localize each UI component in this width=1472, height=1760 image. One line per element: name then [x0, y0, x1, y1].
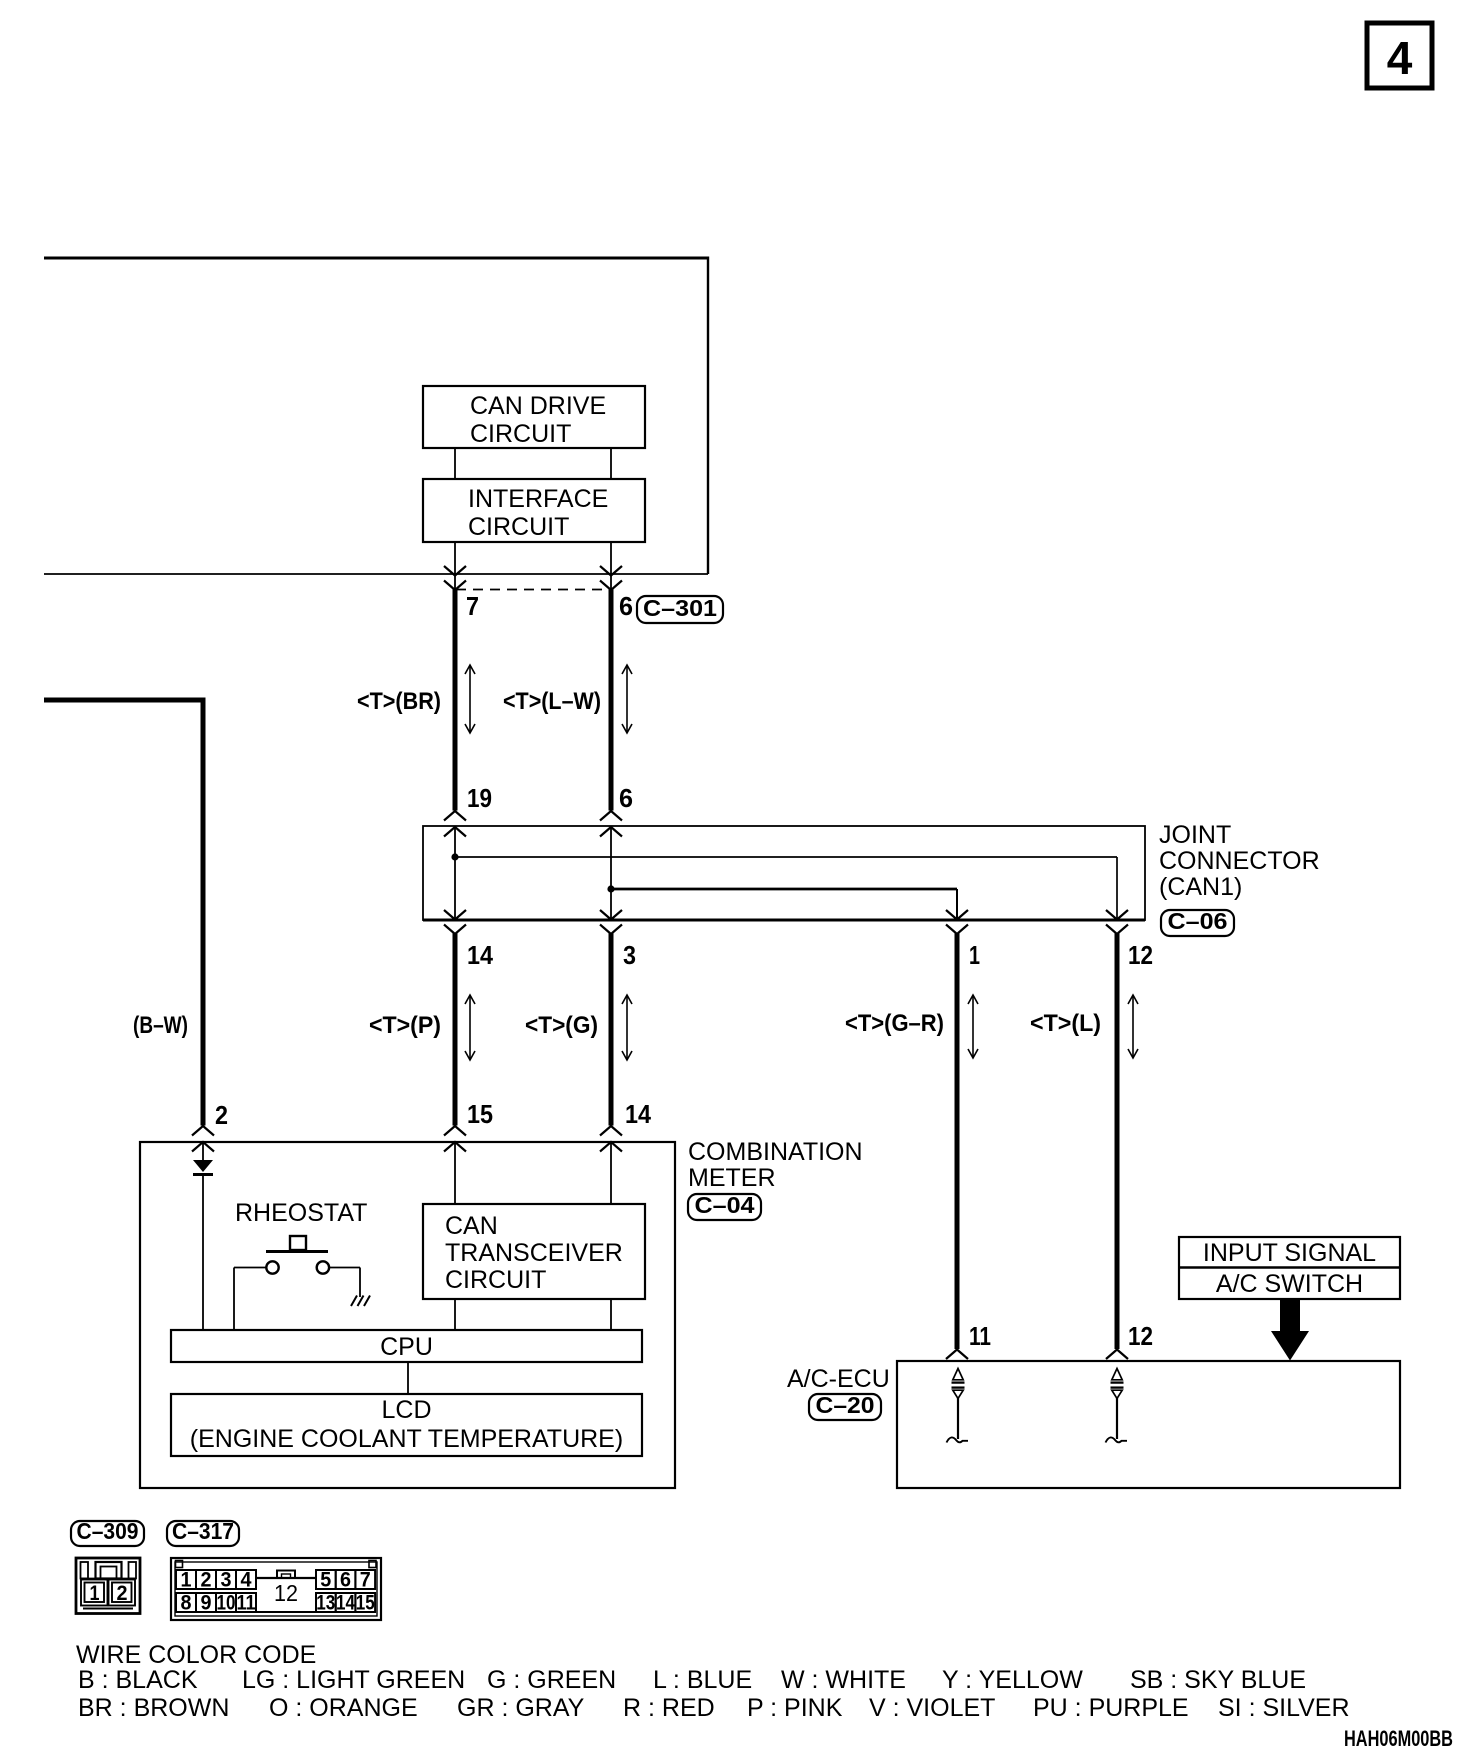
svg-text:1: 1: [181, 1569, 192, 1592]
connector face drawing C-317: [171, 1558, 381, 1620]
svg-text:8: 8: [181, 1592, 192, 1615]
connector symbol C-20 entry pin 11: [946, 1350, 968, 1360]
connector label C-301: [637, 595, 723, 623]
svg-text:PU : PURPLE: PU : PURPLE: [1033, 1694, 1189, 1722]
svg-text:R : RED: R : RED: [623, 1694, 715, 1722]
svg-text:19: 19: [467, 783, 492, 813]
svg-text:<T>(G–R): <T>(G–R): [845, 1010, 944, 1037]
svg-text:G : GREEN: G : GREEN: [487, 1666, 616, 1694]
svg-text:13: 13: [316, 1592, 335, 1615]
connector label C-20: [809, 1392, 881, 1420]
svg-text:INPUT SIGNAL: INPUT SIGNAL: [1203, 1239, 1376, 1267]
wire CPU to LCD: [407, 1362, 409, 1394]
input signal arrow into A/C-ECU: [1271, 1299, 1309, 1361]
connector symbol C-20 entry pin 12: [1106, 1350, 1128, 1360]
joint connector internal wire pin19-pin14: [454, 827, 456, 920]
svg-text:7: 7: [466, 591, 479, 621]
svg-text:12: 12: [274, 1580, 298, 1606]
connector label C-317: [167, 1518, 239, 1546]
wire rheostat left contact to CPU: [234, 1268, 266, 1331]
wire CAN DRIVE to INTERFACE (CAN-H side): [610, 448, 612, 479]
svg-text:BR : BROWN: BR : BROWN: [78, 1694, 229, 1722]
svg-text:Y : YELLOW: Y : YELLOW: [942, 1666, 1083, 1694]
combination meter C-04 box: [140, 1142, 675, 1488]
svg-text:C–06: C–06: [1168, 908, 1228, 934]
svg-text:CIRCUIT: CIRCUIT: [445, 1266, 546, 1294]
wire CAN DRIVE to INTERFACE (CAN-L side): [454, 448, 456, 479]
connector C-301 mating face (dashed): [456, 589, 612, 591]
svg-text:15: 15: [356, 1592, 375, 1615]
svg-text:A/C-ECU: A/C-ECU: [787, 1365, 890, 1393]
svg-text:W : WHITE: W : WHITE: [781, 1666, 906, 1694]
svg-text:12: 12: [1128, 940, 1153, 970]
svg-text:2: 2: [215, 1100, 228, 1130]
A/C-ECU C-20 box: [897, 1361, 1400, 1488]
svg-text:2: 2: [117, 1582, 128, 1605]
wire <T>(P) C-06 pin 14 to meter pin 15: [453, 933, 458, 1126]
wire CAN transceiver to CPU (left): [454, 1299, 456, 1330]
connector symbol C-04 entry pin 14: [600, 1126, 622, 1152]
diode D1 (illumination): [193, 1160, 213, 1175]
A/C-ECU internal contact symbol at pin 11: [947, 1369, 969, 1443]
joint connector internal wire pin6-pin3: [610, 827, 612, 920]
wire (B-W) from page edge to combination meter pin 2: [44, 698, 206, 1126]
block INPUT SIGNAL / A/C SWITCH: [1179, 1237, 1400, 1299]
twisted-pair arrow (P wire): [465, 995, 475, 1060]
svg-text:9: 9: [201, 1592, 212, 1615]
svg-text:TRANSCEIVER: TRANSCEIVER: [445, 1239, 623, 1267]
connector label C-309: [71, 1518, 144, 1546]
connector label C-06: [1161, 908, 1234, 936]
svg-text:LCD: LCD: [381, 1396, 431, 1424]
wire <T>(BR) pin 7 to C-06 pin 19: [453, 589, 458, 811]
svg-text:(B–W): (B–W): [133, 1012, 188, 1039]
connector face drawing C-309: [76, 1558, 140, 1614]
svg-text:GR : GRAY: GR : GRAY: [457, 1694, 585, 1722]
svg-text:LG : LIGHT GREEN: LG : LIGHT GREEN: [242, 1666, 465, 1694]
svg-text:(ENGINE COOLANT TEMPERATURE): (ENGINE COOLANT TEMPERATURE): [190, 1425, 623, 1453]
connector label C-04: [688, 1192, 761, 1220]
A/C-ECU internal contact symbol at pin 12: [1106, 1369, 1128, 1443]
svg-text:6: 6: [619, 591, 633, 621]
svg-text:1: 1: [969, 940, 980, 970]
junction node B (CAN-H bus): [607, 885, 614, 892]
svg-text:2: 2: [201, 1569, 212, 1592]
svg-text:11: 11: [969, 1321, 991, 1351]
connector symbol C-06 exit pin 3: [600, 910, 622, 934]
svg-text:HAH06M00BB: HAH06M00BB: [1344, 1726, 1453, 1751]
twisted-pair arrow (G wire): [622, 995, 632, 1060]
svg-text:C–309: C–309: [77, 1518, 139, 1544]
twisted-pair arrow (G-R wire): [968, 995, 978, 1058]
wire INTERFACE to connector C-301 pin 6: [610, 542, 612, 590]
svg-text:12: 12: [1128, 1321, 1153, 1351]
svg-text:C–04: C–04: [695, 1192, 755, 1218]
svg-text:P : PINK: P : PINK: [747, 1694, 843, 1722]
svg-text:INTERFACE: INTERFACE: [468, 485, 608, 513]
wire <T>(G-R) C-06 pin 1 to A/C-ECU pin 11: [955, 933, 960, 1349]
block CAN TRANSCEIVER CIRCUIT: [423, 1204, 645, 1299]
wire <T>(L) C-06 pin 12 to A/C-ECU pin 12: [1115, 933, 1120, 1349]
joint connector internal bus wire to pin 1: [611, 889, 957, 920]
svg-text:WIRE COLOR CODE: WIRE COLOR CODE: [76, 1641, 316, 1669]
svg-text:JOINT: JOINT: [1159, 821, 1231, 849]
svg-text:1: 1: [90, 1582, 100, 1605]
svg-text:RHEOSTAT: RHEOSTAT: [235, 1199, 367, 1227]
svg-text:C–301: C–301: [643, 595, 717, 621]
svg-text:3: 3: [221, 1569, 232, 1592]
connector symbol at module edge pin 6: [600, 566, 622, 590]
svg-text:<T>(L): <T>(L): [1030, 1010, 1101, 1037]
svg-text:14: 14: [625, 1099, 651, 1129]
svg-text:14: 14: [336, 1592, 355, 1615]
wire color code line 1: [78, 1666, 1306, 1694]
wire meter pin 15 to CAN transceiver: [454, 1142, 456, 1204]
svg-text:CIRCUIT: CIRCUIT: [470, 420, 571, 448]
svg-text:<T>(L–W): <T>(L–W): [503, 688, 601, 715]
connector symbol at module edge pin 7: [444, 566, 466, 590]
svg-text:SI : SILVER: SI : SILVER: [1218, 1694, 1350, 1722]
twisted-pair arrow (L-W wire): [622, 665, 632, 733]
svg-text:14: 14: [467, 940, 493, 970]
svg-text:SB : SKY BLUE: SB : SKY BLUE: [1130, 1666, 1306, 1694]
page number box 4: [1367, 23, 1432, 88]
block CPU: [171, 1330, 642, 1362]
chassis ground (rheostat): [351, 1296, 370, 1307]
svg-text:4: 4: [1387, 32, 1413, 84]
connector symbol C-06 exit pin 1: [946, 910, 968, 934]
wire CAN transceiver to CPU (right): [610, 1299, 612, 1330]
svg-text:<T>(G): <T>(G): [525, 1012, 598, 1039]
module box (top, partial, cut at page edge): [44, 257, 708, 575]
connector symbol C-04 entry pin 15: [444, 1126, 466, 1152]
joint connector (CAN1) C-06 box: [423, 826, 1145, 920]
svg-text:CPU: CPU: [380, 1333, 433, 1361]
connector symbol C-06 entry pin 6: [600, 811, 622, 837]
svg-text:4: 4: [241, 1569, 252, 1592]
svg-text:5: 5: [320, 1569, 331, 1592]
wire pin2 to diode: [202, 1142, 204, 1160]
wire <T>(G) C-06 pin 3 to meter pin 14: [609, 933, 614, 1126]
rheostat switch SW1: [266, 1236, 329, 1274]
wire diode to CPU: [202, 1174, 204, 1330]
svg-text:3: 3: [623, 940, 636, 970]
label COMBINATION METER: [688, 1138, 863, 1192]
svg-text:6: 6: [619, 783, 633, 813]
svg-text:C–20: C–20: [816, 1392, 875, 1418]
connector symbol C-06 exit pin 14: [444, 910, 466, 934]
svg-text:O : ORANGE: O : ORANGE: [269, 1694, 418, 1722]
connector symbol C-06 entry pin 19: [444, 811, 466, 837]
wire color code line 2: [78, 1694, 1350, 1722]
svg-text:15: 15: [467, 1099, 493, 1129]
wire INTERFACE to connector C-301 pin 7: [454, 542, 456, 590]
connector symbol C-04 entry pin 2: [192, 1126, 214, 1152]
wire meter pin 14 to CAN transceiver: [610, 1142, 612, 1204]
twisted-pair arrow (BR wire): [465, 665, 475, 733]
svg-text:CAN: CAN: [445, 1212, 498, 1240]
svg-text:(CAN1): (CAN1): [1159, 873, 1242, 901]
svg-text:<T>(BR): <T>(BR): [357, 688, 441, 715]
svg-text:10: 10: [217, 1592, 236, 1615]
svg-text:CIRCUIT: CIRCUIT: [468, 513, 569, 541]
svg-text:A/C SWITCH: A/C SWITCH: [1216, 1270, 1363, 1298]
svg-text:CAN DRIVE: CAN DRIVE: [470, 392, 606, 420]
svg-text:11: 11: [237, 1592, 256, 1615]
block LCD (ENGINE COOLANT TEMPERATURE): [171, 1394, 642, 1456]
block INTERFACE CIRCUIT: [423, 479, 645, 542]
junction node A (CAN-L bus): [451, 853, 458, 860]
wire <T>(L-W) pin 6 to C-06 pin 6: [609, 589, 614, 811]
svg-text:COMBINATION: COMBINATION: [688, 1138, 863, 1166]
svg-text:L : BLUE: L : BLUE: [653, 1666, 752, 1694]
svg-text:METER: METER: [688, 1164, 776, 1192]
wire rheostat right contact to ground: [329, 1268, 360, 1298]
connector symbol C-06 exit pin 12: [1106, 910, 1128, 934]
svg-text:V : VIOLET: V : VIOLET: [869, 1694, 995, 1722]
svg-text:B : BLACK: B : BLACK: [78, 1666, 198, 1694]
svg-text:CONNECTOR: CONNECTOR: [1159, 847, 1320, 875]
svg-text:C–317: C–317: [172, 1518, 234, 1544]
joint connector internal bus wire to pin 12: [455, 857, 1117, 920]
block CAN DRIVE CIRCUIT: [423, 386, 645, 448]
svg-text:7: 7: [360, 1569, 371, 1592]
label JOINT CONNECTOR (CAN1): [1159, 821, 1320, 901]
svg-text:<T>(P): <T>(P): [369, 1012, 441, 1039]
twisted-pair arrow (L wire): [1128, 995, 1138, 1058]
svg-text:6: 6: [340, 1569, 351, 1592]
